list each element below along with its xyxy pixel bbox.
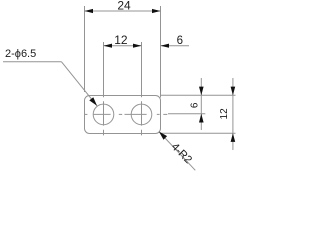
svg-text:2-ϕ6.5: 2-ϕ6.5 <box>5 48 36 60</box>
plate outline <box>85 96 161 134</box>
arrow 6 horizontal <box>161 44 170 48</box>
dim line 6 vertical <box>200 78 202 130</box>
centerline vertical right hole <box>141 101 143 135</box>
arrow leader holes <box>89 97 97 106</box>
arrow 12 left <box>104 44 113 48</box>
svg-text:6: 6 <box>177 35 183 47</box>
leader line corner radius <box>159 132 195 171</box>
arrow 6 vertical bottom <box>199 114 204 123</box>
arrow 24 left <box>85 9 94 13</box>
extension line right hole center <box>141 42 143 97</box>
dim line 12 <box>104 45 142 47</box>
extension line mid right <box>168 113 205 115</box>
arrow leader corner <box>159 132 167 140</box>
extension line left (dim 24) <box>84 6 86 92</box>
arrow 12 right <box>133 44 142 48</box>
svg-text:12: 12 <box>114 33 128 47</box>
dim line 24 <box>85 10 161 12</box>
hole right <box>131 104 152 125</box>
leader line holes <box>3 61 62 63</box>
extension line right (dim 24 / 6) <box>160 6 162 98</box>
extension line bottom right <box>161 132 236 134</box>
extension line top right <box>161 94 236 96</box>
centerline vertical left hole <box>103 101 105 135</box>
svg-text:6: 6 <box>189 102 200 108</box>
arrow 24 right <box>152 9 161 13</box>
hole left <box>93 104 114 125</box>
arrow 6 vertical top <box>199 87 204 96</box>
extension line left hole center <box>103 42 105 97</box>
dim line 12 vertical <box>232 78 234 150</box>
centerline horizontal <box>85 113 168 115</box>
svg-text:24: 24 <box>117 0 131 13</box>
svg-text:12: 12 <box>219 108 230 120</box>
arrow 12 vertical bottom <box>231 133 236 142</box>
dim line 6 horizontal tail <box>161 45 190 47</box>
arrow 12 vertical top <box>231 87 236 96</box>
